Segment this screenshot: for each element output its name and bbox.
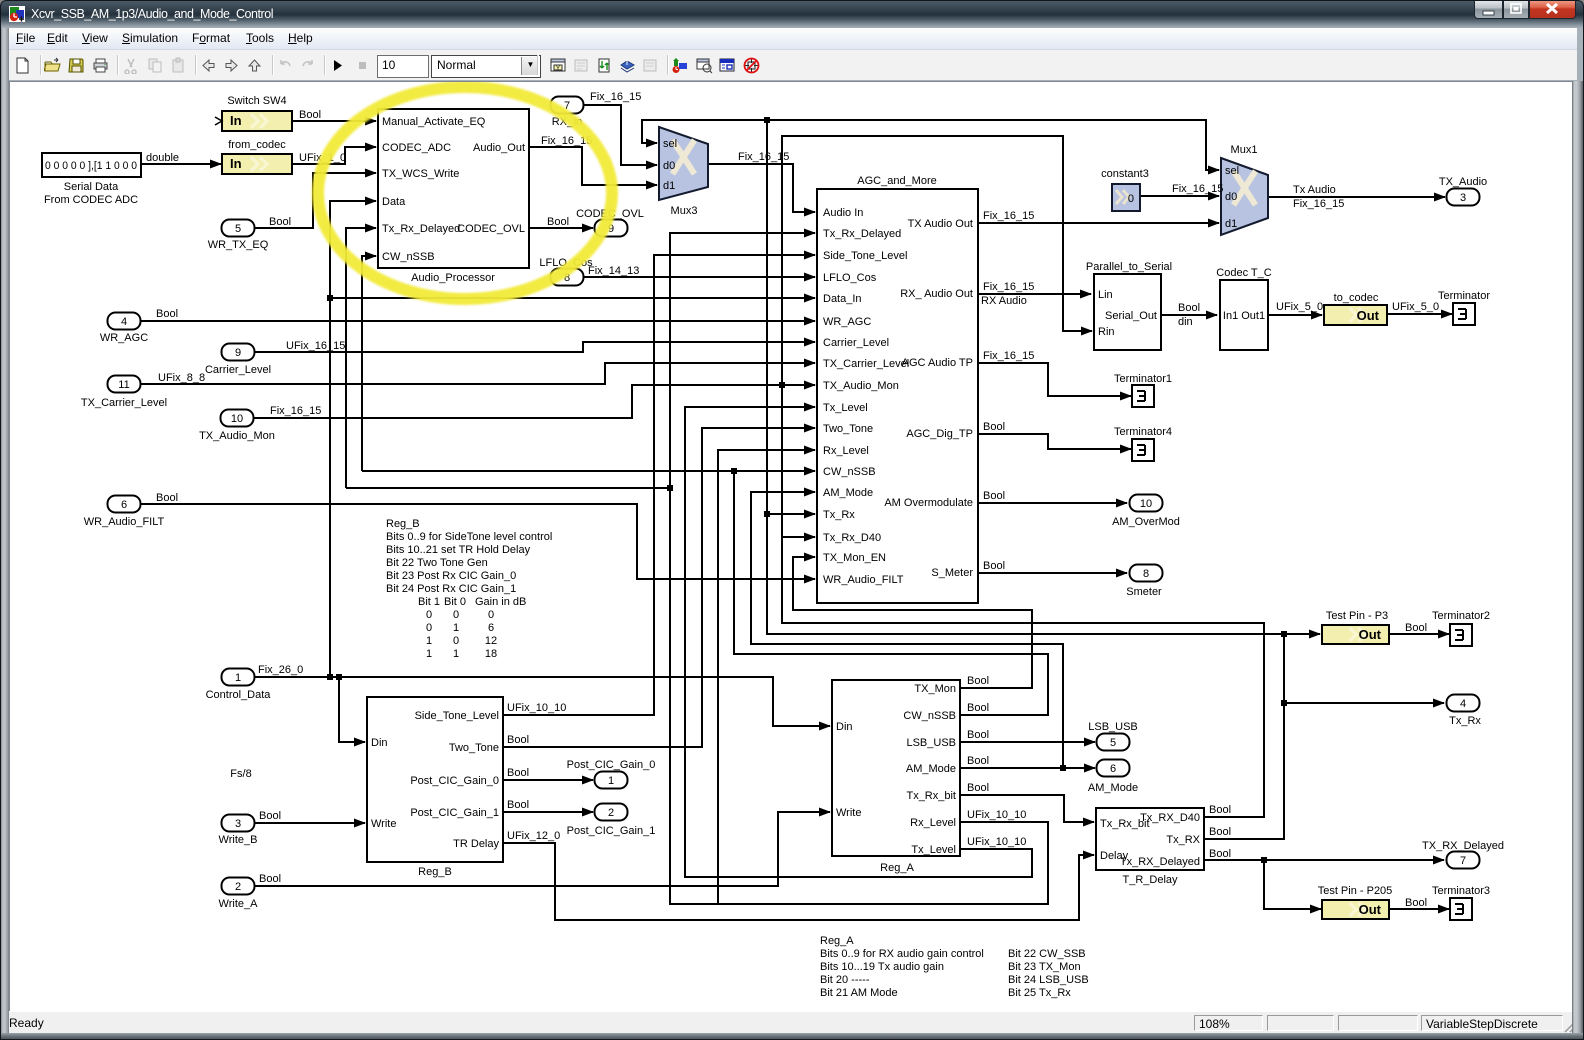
svg-text:Tx_Level: Tx_Level	[823, 402, 868, 414]
svg-text:Bool: Bool	[547, 216, 569, 228]
svg-text:4: 4	[121, 316, 127, 328]
svg-text:Fix_16_15: Fix_16_15	[590, 91, 641, 103]
svg-text:sel: sel	[663, 138, 677, 150]
svg-text:Carrier_Level: Carrier_Level	[205, 364, 271, 376]
svg-text:AGC_and_More: AGC_and_More	[857, 175, 937, 187]
svg-text:0: 0	[488, 609, 494, 621]
svg-text:Y: Y	[556, 66, 560, 72]
svg-text:Tx_Rx_Delayed: Tx_Rx_Delayed	[823, 228, 901, 240]
svg-text:Bool: Bool	[299, 109, 321, 121]
svg-text:Data_In: Data_In	[823, 293, 862, 305]
svg-text:sel: sel	[1225, 165, 1239, 177]
svg-text:Test Pin - P3: Test Pin - P3	[1326, 610, 1388, 622]
svg-text:Fix_16_15: Fix_16_15	[983, 281, 1034, 293]
svg-text:Tx_RX: Tx_RX	[1166, 834, 1200, 846]
svg-text:Tx_Rx: Tx_Rx	[1449, 715, 1481, 727]
svg-text:9: 9	[235, 347, 241, 359]
svg-text:In: In	[230, 156, 242, 171]
svg-text:from_codec: from_codec	[228, 139, 286, 151]
svg-text:Side_Tone_Level: Side_Tone_Level	[823, 250, 907, 262]
svg-text:Tx_Rx_D40: Tx_Rx_D40	[823, 532, 881, 544]
svg-text:Fs/8: Fs/8	[230, 768, 251, 780]
svg-text:constant3: constant3	[1101, 168, 1149, 180]
svg-text:LSB_USB: LSB_USB	[1088, 721, 1138, 733]
svg-text:Tx_Rx_Delayed: Tx_Rx_Delayed	[382, 223, 460, 235]
svg-text:Write_A: Write_A	[219, 898, 259, 910]
svg-text:Post_CIC_Gain_1: Post_CIC_Gain_1	[410, 807, 499, 819]
svg-text:d1: d1	[663, 180, 675, 192]
svg-text:Terminator1: Terminator1	[1114, 373, 1172, 385]
svg-text:WR_Audio_FILT: WR_Audio_FILT	[823, 574, 904, 586]
svg-text:Switch SW4: Switch SW4	[227, 95, 286, 107]
svg-text:Terminator4: Terminator4	[1114, 426, 1172, 438]
svg-text:Carrier_Level: Carrier_Level	[823, 337, 889, 349]
svg-text:TX Audio Out: TX Audio Out	[908, 218, 973, 230]
svg-text:Parallel_to_Serial: Parallel_to_Serial	[1086, 261, 1172, 273]
svg-text:Bool: Bool	[1405, 622, 1427, 634]
svg-text:Audio_Processor: Audio_Processor	[411, 272, 495, 284]
svg-text:Bool: Bool	[507, 734, 529, 746]
svg-text:RX_ Audio Out: RX_ Audio Out	[900, 288, 973, 300]
svg-text:Bool: Bool	[1209, 804, 1231, 816]
svg-text:1: 1	[426, 635, 432, 647]
svg-text:12: 12	[485, 635, 497, 647]
svg-text:WR_Audio_FILT: WR_Audio_FILT	[84, 516, 165, 528]
svg-text:din: din	[1178, 316, 1193, 328]
svg-text:to_codec: to_codec	[1334, 292, 1379, 304]
svg-text:AM_Mode: AM_Mode	[823, 487, 873, 499]
svg-text:2: 2	[608, 807, 614, 819]
svg-text:TX_Audio_Mon: TX_Audio_Mon	[199, 430, 275, 442]
svg-text:Bool: Bool	[967, 702, 989, 714]
svg-text:TR Delay: TR Delay	[453, 838, 499, 850]
svg-text:Lin: Lin	[1098, 289, 1113, 301]
svg-text:Din: Din	[371, 737, 388, 749]
svg-text:Data: Data	[382, 196, 406, 208]
svg-text:Bool: Bool	[967, 729, 989, 741]
svg-text:double: double	[146, 152, 179, 164]
svg-text:LFLO_Cos: LFLO_Cos	[823, 272, 877, 284]
svg-text:Post_CIC_Gain_0: Post_CIC_Gain_0	[567, 759, 656, 771]
svg-text:Write_B: Write_B	[219, 834, 258, 846]
svg-text:d1: d1	[1225, 218, 1237, 230]
svg-text:6: 6	[488, 622, 494, 634]
svg-text:Test Pin - P205: Test Pin - P205	[1318, 885, 1393, 897]
svg-text:Reg_B: Reg_B	[386, 518, 420, 530]
svg-text:Bool: Bool	[269, 216, 291, 228]
svg-text:Audio_Out: Audio_Out	[473, 142, 525, 154]
svg-text:Smeter: Smeter	[1126, 586, 1162, 598]
svg-text:0 0 0 0 0 ],[1 1 0 0 0: 0 0 0 0 0 ],[1 1 0 0 0	[45, 160, 137, 172]
svg-text:Rx_Level: Rx_Level	[910, 817, 956, 829]
svg-text:11: 11	[118, 379, 129, 391]
svg-text:Gain in dB: Gain in dB	[475, 596, 526, 608]
svg-text:AGC Audio TP: AGC Audio TP	[902, 357, 973, 369]
svg-text:TX_Carrier_Level: TX_Carrier_Level	[823, 358, 909, 370]
svg-text:Bool: Bool	[1405, 897, 1427, 909]
svg-text:UFix_10_10: UFix_10_10	[967, 809, 1026, 821]
svg-text:Fix_16_15: Fix_16_15	[983, 350, 1034, 362]
svg-text:TX_WCS_Write: TX_WCS_Write	[382, 168, 459, 180]
svg-text:Fix_16_15: Fix_16_15	[983, 210, 1034, 222]
svg-text:Tx_RX_Delayed: Tx_RX_Delayed	[1120, 856, 1200, 868]
svg-text:Serial_Out: Serial_Out	[1105, 310, 1157, 322]
svg-text:1: 1	[608, 775, 614, 787]
svg-text:4: 4	[1460, 698, 1466, 710]
svg-text:7: 7	[1460, 855, 1466, 867]
svg-text:TX_RX_Delayed: TX_RX_Delayed	[1422, 840, 1504, 852]
svg-text:Codec T_C: Codec T_C	[1216, 267, 1271, 279]
svg-text:Mux3: Mux3	[671, 205, 698, 217]
svg-text:T_R_Delay: T_R_Delay	[1122, 874, 1178, 886]
svg-text:Out: Out	[1357, 308, 1380, 323]
svg-text:1: 1	[235, 672, 241, 684]
svg-text:Post_CIC_Gain_0: Post_CIC_Gain_0	[410, 775, 499, 787]
svg-text:In1 Out1: In1 Out1	[1223, 310, 1265, 322]
svg-text:Bit 22 Two Tone Gen: Bit 22 Two Tone Gen	[386, 557, 488, 569]
svg-text:0: 0	[1128, 193, 1134, 205]
svg-text:Bool: Bool	[983, 490, 1005, 502]
svg-text:Reg_A: Reg_A	[820, 935, 854, 947]
svg-text:In: In	[230, 113, 242, 128]
svg-text:0: 0	[426, 609, 432, 621]
svg-text:1: 1	[453, 622, 459, 634]
svg-text:Control_Data: Control_Data	[206, 689, 272, 701]
svg-text:Bit 20 -----: Bit 20 -----	[820, 974, 870, 986]
svg-text:Serial Data: Serial Data	[64, 181, 119, 193]
svg-text:Fix_26_0: Fix_26_0	[258, 664, 303, 676]
svg-text:LSB_USB: LSB_USB	[906, 737, 956, 749]
svg-text:Bool: Bool	[1209, 848, 1231, 860]
svg-text:Bit 23 Post Rx CIC Gain_0: Bit 23 Post Rx CIC Gain_0	[386, 570, 516, 582]
svg-text:AM_Mode: AM_Mode	[1088, 782, 1138, 794]
svg-text:Bool: Bool	[507, 767, 529, 779]
svg-text:WR_AGC: WR_AGC	[823, 316, 871, 328]
svg-text:Rx_Level: Rx_Level	[823, 445, 869, 457]
svg-text:Reg_A: Reg_A	[880, 862, 914, 874]
svg-text:Two_Tone: Two_Tone	[823, 423, 873, 435]
svg-text:1: 1	[426, 648, 432, 660]
svg-text:Bit 22 CW_SSB: Bit 22 CW_SSB	[1008, 948, 1086, 960]
svg-text:Tx_Level: Tx_Level	[911, 844, 956, 856]
svg-text:From CODEC ADC: From CODEC ADC	[44, 194, 138, 206]
svg-text:Audio In: Audio In	[823, 207, 863, 219]
svg-text:Terminator3: Terminator3	[1432, 885, 1490, 897]
svg-text:Manual_Activate_EQ: Manual_Activate_EQ	[382, 116, 486, 128]
svg-text:CODEC_ADC: CODEC_ADC	[382, 142, 451, 154]
svg-text:Bits 0..9 for SideTone level c: Bits 0..9 for SideTone level control	[386, 531, 552, 543]
svg-text:WR_AGC: WR_AGC	[100, 332, 148, 344]
svg-text:10: 10	[231, 413, 243, 425]
svg-text:Tx Audio: Tx Audio	[1293, 184, 1336, 196]
svg-text:3: 3	[1460, 192, 1466, 204]
svg-text:AM_OverMod: AM_OverMod	[1112, 516, 1180, 528]
svg-text:Two_Tone: Two_Tone	[449, 742, 499, 754]
svg-text:CW_nSSB: CW_nSSB	[823, 466, 876, 478]
svg-text:Bool: Bool	[259, 873, 281, 885]
svg-text:UFix_12_0: UFix_12_0	[507, 830, 560, 842]
svg-text:Bit 23 TX_Mon: Bit 23 TX_Mon	[1008, 961, 1081, 973]
svg-text:Fix_16_15: Fix_16_15	[270, 405, 321, 417]
svg-text:Bit 25 Tx_Rx: Bit 25 Tx_Rx	[1008, 987, 1071, 999]
svg-text:CW_nSSB: CW_nSSB	[903, 710, 956, 722]
svg-text:0: 0	[453, 635, 459, 647]
svg-text:3: 3	[235, 818, 241, 830]
svg-text:CW_nSSB: CW_nSSB	[382, 251, 435, 263]
svg-text:TX_Audio_Mon: TX_Audio_Mon	[823, 380, 899, 392]
svg-text:Tx_Rx: Tx_Rx	[823, 509, 855, 521]
svg-text:Bit 1: Bit 1	[418, 596, 440, 608]
svg-text:5: 5	[235, 223, 241, 235]
svg-text:Din: Din	[836, 721, 853, 733]
svg-text:Fix_16_15: Fix_16_15	[738, 151, 789, 163]
svg-text:Tx_RX_D40: Tx_RX_D40	[1140, 812, 1200, 824]
svg-text:5: 5	[1110, 737, 1116, 749]
svg-text:UFix_5_0: UFix_5_0	[1276, 301, 1323, 313]
svg-text:Bits 10...19 Tx audio gain: Bits 10...19 Tx audio gain	[820, 961, 944, 973]
svg-text:10: 10	[1140, 498, 1152, 510]
svg-text:8: 8	[1143, 568, 1149, 580]
svg-text:AM Overmodulate: AM Overmodulate	[884, 497, 973, 509]
svg-text:UFix_5_0: UFix_5_0	[1392, 301, 1439, 313]
svg-text:UFix_8_8: UFix_8_8	[158, 372, 205, 384]
svg-text:AM_Mode: AM_Mode	[906, 763, 956, 775]
svg-text:Bool: Bool	[967, 675, 989, 687]
svg-text:S_Meter: S_Meter	[931, 567, 973, 579]
svg-text:Mux1: Mux1	[1231, 144, 1258, 156]
svg-text:Terminator: Terminator	[1438, 290, 1490, 302]
svg-text:Reg_B: Reg_B	[418, 866, 452, 878]
svg-text:Terminator2: Terminator2	[1432, 610, 1490, 622]
svg-text:Bits 0..9 for RX audio gain co: Bits 0..9 for RX audio gain control	[820, 948, 984, 960]
svg-text:Bool: Bool	[967, 755, 989, 767]
svg-text:Fix_16_15: Fix_16_15	[1293, 198, 1344, 210]
svg-text:Fix_16_15: Fix_16_15	[1172, 183, 1223, 195]
svg-text:TX_Audio: TX_Audio	[1439, 176, 1487, 188]
svg-text:Bool: Bool	[967, 782, 989, 794]
svg-text:TX_Carrier_Level: TX_Carrier_Level	[81, 397, 167, 409]
svg-text:TX_Mon_EN: TX_Mon_EN	[823, 552, 886, 564]
svg-text:Write: Write	[836, 807, 861, 819]
svg-text:Rin: Rin	[1098, 326, 1115, 338]
svg-text:UFix_10_10: UFix_10_10	[967, 836, 1026, 848]
svg-text:RX Audio: RX Audio	[981, 295, 1027, 307]
svg-text:AGC_Dig_TP: AGC_Dig_TP	[906, 428, 973, 440]
svg-text:Bit 24 LSB_USB: Bit 24 LSB_USB	[1008, 974, 1089, 986]
svg-text:Bool: Bool	[983, 421, 1005, 433]
svg-text:d0: d0	[663, 160, 675, 172]
svg-text:Bool: Bool	[1209, 826, 1231, 838]
svg-text:Bool: Bool	[156, 308, 178, 320]
svg-text:d0: d0	[1225, 191, 1237, 203]
svg-text:Write: Write	[371, 818, 396, 830]
svg-text:Post_CIC_Gain_1: Post_CIC_Gain_1	[567, 825, 656, 837]
svg-text:Out: Out	[1359, 627, 1382, 642]
svg-text:Tx_Rx_bit: Tx_Rx_bit	[906, 790, 956, 802]
svg-text:Bit 21 AM Mode: Bit 21 AM Mode	[820, 987, 898, 999]
svg-text:WR_TX_EQ: WR_TX_EQ	[208, 239, 269, 251]
svg-text:Side_Tone_Level: Side_Tone_Level	[415, 710, 499, 722]
svg-text:CODEC_OVL: CODEC_OVL	[457, 223, 525, 235]
svg-text:Fix_14_13: Fix_14_13	[588, 265, 639, 277]
svg-text:18: 18	[485, 648, 497, 660]
svg-text:Bits 10..21 set TR Hold Delay: Bits 10..21 set TR Hold Delay	[386, 544, 531, 556]
svg-text:1: 1	[453, 648, 459, 660]
svg-text:Bool: Bool	[507, 799, 529, 811]
svg-text:TX_Mon: TX_Mon	[914, 683, 956, 695]
svg-text:0: 0	[453, 609, 459, 621]
svg-text:Bool: Bool	[1178, 302, 1200, 314]
svg-text:Bit 0: Bit 0	[444, 596, 466, 608]
svg-text:6: 6	[1110, 763, 1116, 775]
svg-text:0: 0	[426, 622, 432, 634]
svg-text:6: 6	[121, 499, 127, 511]
svg-text:Bool: Bool	[983, 560, 1005, 572]
svg-text:Bool: Bool	[156, 492, 178, 504]
svg-text:2: 2	[235, 881, 241, 893]
svg-text:Out: Out	[1359, 902, 1382, 917]
svg-text:UFix_16_15: UFix_16_15	[286, 340, 345, 352]
svg-text:Bit 24 Post Rx CIC Gain_1: Bit 24 Post Rx CIC Gain_1	[386, 583, 516, 595]
svg-text:UFix_10_10: UFix_10_10	[507, 702, 566, 714]
svg-text:Bool: Bool	[259, 810, 281, 822]
